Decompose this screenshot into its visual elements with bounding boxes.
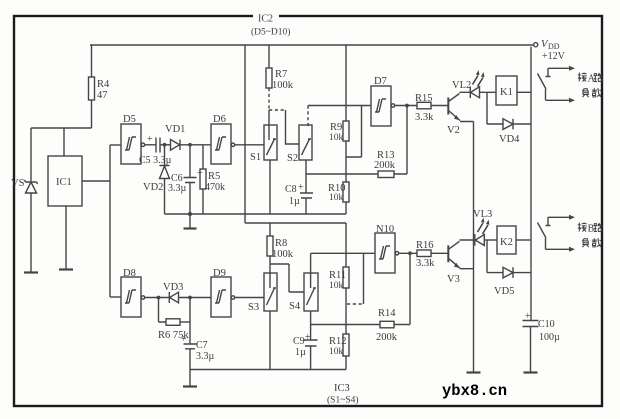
wire: S4 control from N10 input line [310,253,312,288]
wire: VD1 to D6 input [180,144,211,146]
op-amp D6 schmitt gate box [211,124,231,164]
svg-text:VD3: VD3 [163,282,183,293]
svg-text:ybx8.cn: ybx8.cn [442,382,507,400]
node load-A label (hand-drawn CJK 接A路 负载) [578,73,587,82]
wire: VD4 to right rail [513,123,531,125]
svg-text:R12: R12 [329,336,347,347]
svg-text:C7: C7 [196,340,208,351]
op-amp D9 schmitt gate box [211,277,231,317]
wire: IC1 bottom pin [65,206,67,269]
svg-text:10k: 10k [329,347,344,357]
wire: R5 branch [202,145,204,169]
svg-text:S4: S4 [289,301,301,312]
wire: S4 bottom stem [310,311,312,340]
wire: middle ground rail [165,213,346,215]
svg-text:B: B [588,224,595,235]
svg-text:R14: R14 [378,308,396,319]
wire: VD2 to ground rail [164,179,166,215]
wire: R5 to ground rail [202,189,204,214]
svg-text:V3: V3 [447,274,460,285]
wire: R7 control dashes [268,88,270,110]
wire: C7 to bottom rail [189,349,191,370]
wire: K2 to right rail [516,239,531,241]
op-amp N10 schmitt gate box [375,233,395,273]
node junction R6 left [157,296,159,298]
wire: R6 left leg [159,298,167,323]
resistor R6 [166,319,180,326]
svg-text:C5 3.3µ: C5 3.3µ [139,155,172,166]
node junction ground stem [189,213,192,216]
wire: into D8 input [110,296,121,298]
wire: right vertical rail [530,47,532,320]
capacitor C5 [156,138,160,153]
svg-text:R9: R9 [330,122,342,133]
svg-text:D6: D6 [213,114,226,125]
wire: S2 bottom stem [305,160,307,193]
svg-text:100k: 100k [272,249,294,260]
wire: R7 from rail [268,45,270,68]
resistor R14 [380,321,394,328]
wire: D6 out to S1 [235,144,264,146]
capacitor C9 [304,340,318,346]
svg-text:R5: R5 [208,171,220,182]
wire: R11 chain from VDD line [345,223,347,267]
ground (C10) [524,371,538,373]
wire: VD5 to right rail [513,272,531,274]
wire: VD3 to D9 input [179,297,212,299]
svg-text:S2: S2 [287,153,298,164]
wire: C5 to VD1 [160,144,170,146]
switch S4 [304,273,318,311]
wire: IC1 top pin [63,128,65,156]
LED VL2 light arrows [473,76,484,87]
resistor R8 [267,236,273,256]
wire: S1 bottom to ground rail [269,160,271,214]
svg-text:+: + [147,134,153,145]
wire: C10 to ground [530,327,532,373]
wire: R8 to S3 top [269,256,271,288]
svg-text:+: + [525,311,531,322]
transistor Q V2 [447,98,449,115]
op-amp U IC1 box [48,156,82,206]
svg-text:IC2: IC2 [258,14,273,25]
node junction R14 feedback [409,252,411,254]
svg-text:R16: R16 [416,240,434,251]
wire: VDD drop at x245 [244,45,246,223]
svg-text:N10: N10 [376,224,394,235]
capacitor C8 [300,193,313,198]
svg-text:3.3µ: 3.3µ [168,183,187,194]
wire: VS to ground [30,193,32,272]
svg-text:VS: VS [11,178,25,189]
svg-text:IC3: IC3 [334,383,350,394]
wire: left header horizontal [31,127,92,129]
op-amp D7 schmitt gate box [371,86,391,126]
wire: R13 right up to D7 output [394,106,407,175]
diode VS (zener, pointing up) [25,180,38,184]
wire: D9 out to S3 [235,297,264,299]
svg-text:1µ: 1µ [289,196,300,207]
switch S3 [264,273,277,311]
transistor Q V3 [447,245,449,262]
svg-text:D9: D9 [213,268,226,279]
node junction C6 tap [189,144,191,146]
svg-text:200k: 200k [374,160,396,171]
svg-text:10k: 10k [329,133,344,143]
wire: R8 from VDD line [269,223,271,236]
LED VL2 [470,87,479,99]
svg-text:S3: S3 [248,302,259,313]
svg-text:+12V: +12V [542,51,566,62]
svg-text:(D5~D10): (D5~D10) [251,27,290,38]
wire: R11 bottom vertical [345,288,347,334]
node junction C7 tap [189,296,191,298]
op-amp D5 schmitt gate box [121,124,141,164]
diode VD1 [171,140,181,151]
svg-text:IC1: IC1 [56,177,72,188]
wire: R15 to V2 base [431,105,448,107]
node VDD terminal circle [534,43,538,47]
resistor R13 [378,171,394,178]
resistor R9 [343,121,349,141]
relay K2 box [497,226,516,254]
capacitor C10 [523,321,539,327]
diode VD5 [503,267,513,278]
svg-text:C10: C10 [538,319,555,330]
svg-text:R8: R8 [275,238,287,249]
svg-text:470k: 470k [205,182,225,193]
svg-text:VD2: VD2 [143,182,163,193]
wire: splitter vertical D5/D8 [109,145,111,297]
svg-text:+: + [181,334,187,345]
wire: R6 right leg [180,321,190,323]
resistor R15 [417,102,431,109]
wire: top VDD rail [90,44,533,46]
svg-text:VD1: VD1 [165,124,185,135]
svg-text:K1: K1 [500,87,513,98]
diode VD4 [503,119,513,130]
relay contact A [546,68,570,77]
resistor R10 [343,182,349,202]
svg-text:1µ: 1µ [295,347,306,358]
wire: R14 right to N10 output [394,253,410,324]
wire: VDD distribution to bottom half [245,222,346,224]
wire: VD2 branch down [164,145,166,166]
wire: R4 bottom to left header line [91,100,93,128]
svg-text:3.3k: 3.3k [416,258,435,269]
wire: R9/R10 vertical continues [345,157,347,182]
svg-text:10k: 10k [329,193,344,203]
wire: IC1 output to splitter [82,180,110,182]
svg-text:K2: K2 [500,237,513,248]
wire: R9 bottom jog [346,106,362,158]
svg-text:100µ: 100µ [539,332,560,343]
wire: D8 row: D8 gate box [121,277,141,317]
ground (VS) [24,271,38,273]
svg-text:VD5: VD5 [494,286,514,297]
wire: D5 out to C5 [145,144,156,146]
wire: VD5 branch [487,240,503,273]
wire: C6 to ground rail [189,183,191,215]
diode VD3 (pointing left) [169,292,178,303]
svg-text:R15: R15 [415,93,433,104]
svg-text:3.3k: 3.3k [415,112,434,123]
svg-text:+: + [305,332,311,343]
svg-text:V2: V2 [447,125,460,136]
wire: VL3 to K2 [484,239,497,241]
capacitor C6 [184,178,197,183]
wire: D8 out to VD3 [145,297,169,299]
relay contact B [546,217,570,226]
wire: S2 control dash from D7 input line [307,106,309,128]
svg-text:DD: DD [548,42,560,51]
wire: into D5 input [110,144,121,146]
svg-text:10k: 10k [329,281,344,291]
wire: N10 input line [311,252,375,254]
svg-text:200k: 200k [376,332,398,343]
ground (V3 emitter line) [467,371,481,373]
resistor R7 [266,68,272,88]
svg-text:VL2: VL2 [452,80,471,91]
wire: S2-bottom to R13 line [306,173,378,175]
svg-text:R4: R4 [97,79,110,90]
node junction VD2 tap [163,144,165,146]
svg-text:100k: 100k [272,80,294,91]
svg-text:D8: D8 [123,268,136,279]
svg-text:VL3: VL3 [473,209,492,220]
svg-text:+: + [197,168,203,179]
wire: jog x363 with dash [363,253,365,304]
svg-text:D7: D7 [374,76,387,87]
node load-B label (hand-drawn CJK 接B路 负载) [578,223,587,232]
wire: C7 branch [189,298,191,345]
resistor R11 [343,267,349,288]
wire: R4 drop from rail [91,45,93,77]
wire: jog down to S2 input [286,110,300,144]
switch S1 [264,125,277,160]
wire: R16 to V3 base [431,252,448,254]
ground (bottom rail) [183,385,197,387]
wire: C9 to bottom rail [310,346,312,370]
wire: D7 out to R15 [395,105,417,107]
svg-text:S1: S1 [250,152,261,163]
wire: jog to S4 input [270,264,304,292]
ground (mid rail) [184,227,197,229]
wire: R12 to bottom rail [345,356,347,370]
svg-text:47: 47 [97,90,108,101]
wire: S4-bottom to R14 line [311,324,380,326]
wire: C6 branch down [189,145,191,178]
LED VL3 [475,234,485,246]
resistor R16 [417,250,431,257]
diode VD2 (pointing up) [160,166,170,179]
wire: S3 bottom to rail [269,311,271,370]
node junction R13 feedback [406,104,408,106]
svg-text:VD4: VD4 [499,134,520,145]
svg-text:C9: C9 [293,336,305,347]
wire: D7 input line [308,105,371,107]
svg-text:3.3µ: 3.3µ [196,351,215,362]
wire: C8 to ground rail [305,198,307,214]
ground (IC1) [59,268,73,270]
relay K1 box [496,76,517,105]
wire: V2 emitter long vertical [473,122,475,373]
wire: bottom ground rail [190,369,346,371]
resistor R5 [200,169,206,189]
capacitor C7 [184,344,197,349]
wire: VD4 branch [487,92,503,124]
wire: ground stem [189,214,191,228]
wire: R9 chain vertical [345,45,347,121]
svg-text:R11: R11 [329,270,346,281]
svg-text:(S1~S4): (S1~S4) [327,395,359,406]
resistor R4 [89,77,95,100]
wire: bottom ground stem [189,370,191,387]
wire: R10 to ground rail [345,202,346,214]
wire: control into S1 top [268,110,270,140]
label IC2 [253,12,279,23]
svg-text:D5: D5 [123,114,136,125]
wire: N10 out to R16 [399,252,417,254]
svg-text:+: + [298,182,304,193]
wire: K1 to right rail [517,91,531,93]
switch S2 [299,125,312,160]
LED VL3 light arrows [478,223,489,234]
resistor R12 [343,334,349,356]
wire: VS branch down [30,128,32,181]
svg-text:C8: C8 [285,184,297,195]
wire: VL2 to K1 [480,91,497,93]
svg-text:R7: R7 [275,69,287,80]
